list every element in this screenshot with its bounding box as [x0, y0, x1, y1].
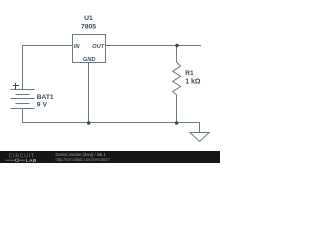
- svg-text:http://circuitlab.com/cem3647: http://circuitlab.com/cem3647: [56, 157, 111, 162]
- svg-text:LAB: LAB: [26, 158, 37, 164]
- battery BAT1 plates: [11, 90, 35, 109]
- svg-text:U1: U1: [84, 15, 93, 22]
- svg-text:IN: IN: [74, 44, 81, 50]
- battery plus sign: [13, 83, 19, 89]
- node junction at OUT/R1: [175, 44, 178, 47]
- svg-text:BAT1: BAT1: [37, 94, 54, 101]
- wire OUT to right end: [105, 45, 201, 47]
- node junction at GND stub/bottom wire: [87, 121, 90, 124]
- node junction at R1/bottom wire: [175, 121, 178, 124]
- svg-text:9 V: 9 V: [37, 101, 48, 108]
- watermark footer bar: [0, 151, 220, 163]
- svg-text:7805: 7805: [81, 24, 96, 31]
- svg-text:1 kΩ: 1 kΩ: [185, 78, 201, 85]
- voltage regulator U1 box: [73, 35, 106, 63]
- CircuitLab logo: [6, 153, 37, 164]
- svg-text:OUT: OUT: [92, 44, 105, 50]
- wire GND pin down: [88, 62, 90, 123]
- svg-text:R1: R1: [185, 70, 194, 77]
- svg-text:GND: GND: [83, 57, 96, 63]
- resistor R1: [173, 46, 181, 123]
- bottom wire battery- to ground: [23, 109, 200, 133]
- wire battery+ to IN: [23, 46, 73, 90]
- ground symbol: [190, 133, 209, 142]
